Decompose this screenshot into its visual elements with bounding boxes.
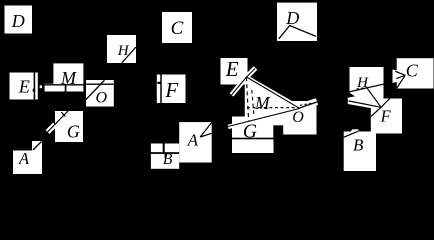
svg-text:A: A (18, 149, 30, 168)
svg-text:F: F (380, 106, 392, 125)
svg-text:B: B (353, 135, 364, 154)
svg-text:G: G (243, 121, 257, 142)
svg-text:M: M (60, 68, 77, 88)
svg-text:C: C (171, 18, 184, 39)
svg-text:E: E (18, 76, 30, 96)
svg-text:B: B (163, 151, 173, 168)
svg-text:H: H (356, 75, 369, 91)
svg-text:E: E (225, 57, 239, 81)
svg-text:H: H (117, 43, 130, 59)
svg-text:F: F (164, 78, 178, 102)
svg-text:D: D (11, 11, 25, 31)
svg-text:O: O (292, 109, 304, 126)
svg-text:O: O (96, 90, 108, 107)
svg-text:D: D (285, 8, 299, 28)
svg-text:G: G (67, 121, 80, 141)
svg-text:A: A (187, 130, 199, 149)
svg-text:C: C (406, 61, 419, 81)
svg-text:M: M (254, 93, 271, 113)
